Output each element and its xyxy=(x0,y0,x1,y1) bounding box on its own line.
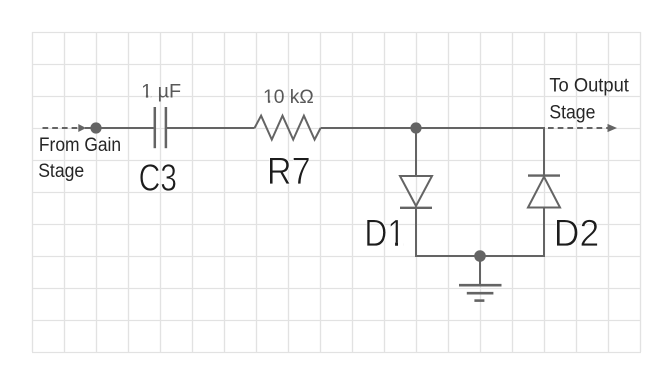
svg-text:R7: R7 xyxy=(267,151,311,193)
resistor R7 zigzag xyxy=(255,116,321,140)
wire: diode D2 to bottom rail xyxy=(543,208,545,258)
svg-text:D2: D2 xyxy=(554,213,599,255)
svg-text:Stage: Stage xyxy=(549,102,595,123)
svg-text:Stage: Stage xyxy=(38,161,84,182)
node: ground node xyxy=(474,250,486,262)
wire: diode D1 to bottom rail xyxy=(415,208,417,257)
capacitor C3 plates xyxy=(155,107,166,148)
wire: dashed output arrow xyxy=(548,127,611,129)
wire: resistor R7 to output corner (through junction) xyxy=(321,127,544,129)
wire: junction down to diode D1 xyxy=(415,128,417,176)
diode D1 (anode top, cathode bottom) xyxy=(400,176,432,208)
svg-text:From Gain: From Gain xyxy=(39,135,121,156)
node: junction above D1 xyxy=(410,122,421,133)
wire: bottom rail xyxy=(415,255,545,257)
arrowhead: output arrow xyxy=(608,124,618,132)
diode D2 (cathode top, anode bottom) xyxy=(528,176,560,208)
wire: input node to capacitor C3 xyxy=(96,127,154,129)
wire: dashed input arrow from left xyxy=(43,127,92,129)
wire: output corner down to diode D2 xyxy=(543,127,545,176)
node: input node xyxy=(90,122,101,133)
svg-text:To Output: To Output xyxy=(549,76,629,97)
ground symbol xyxy=(459,256,502,301)
svg-text:10 kΩ: 10 kΩ xyxy=(263,87,314,108)
arrowhead: input arrow xyxy=(78,124,86,132)
svg-text:C3: C3 xyxy=(139,158,177,200)
svg-text:D1: D1 xyxy=(364,213,405,255)
svg-text:1 µF: 1 µF xyxy=(141,82,181,103)
wire: capacitor C3 to resistor R7 xyxy=(167,127,255,129)
